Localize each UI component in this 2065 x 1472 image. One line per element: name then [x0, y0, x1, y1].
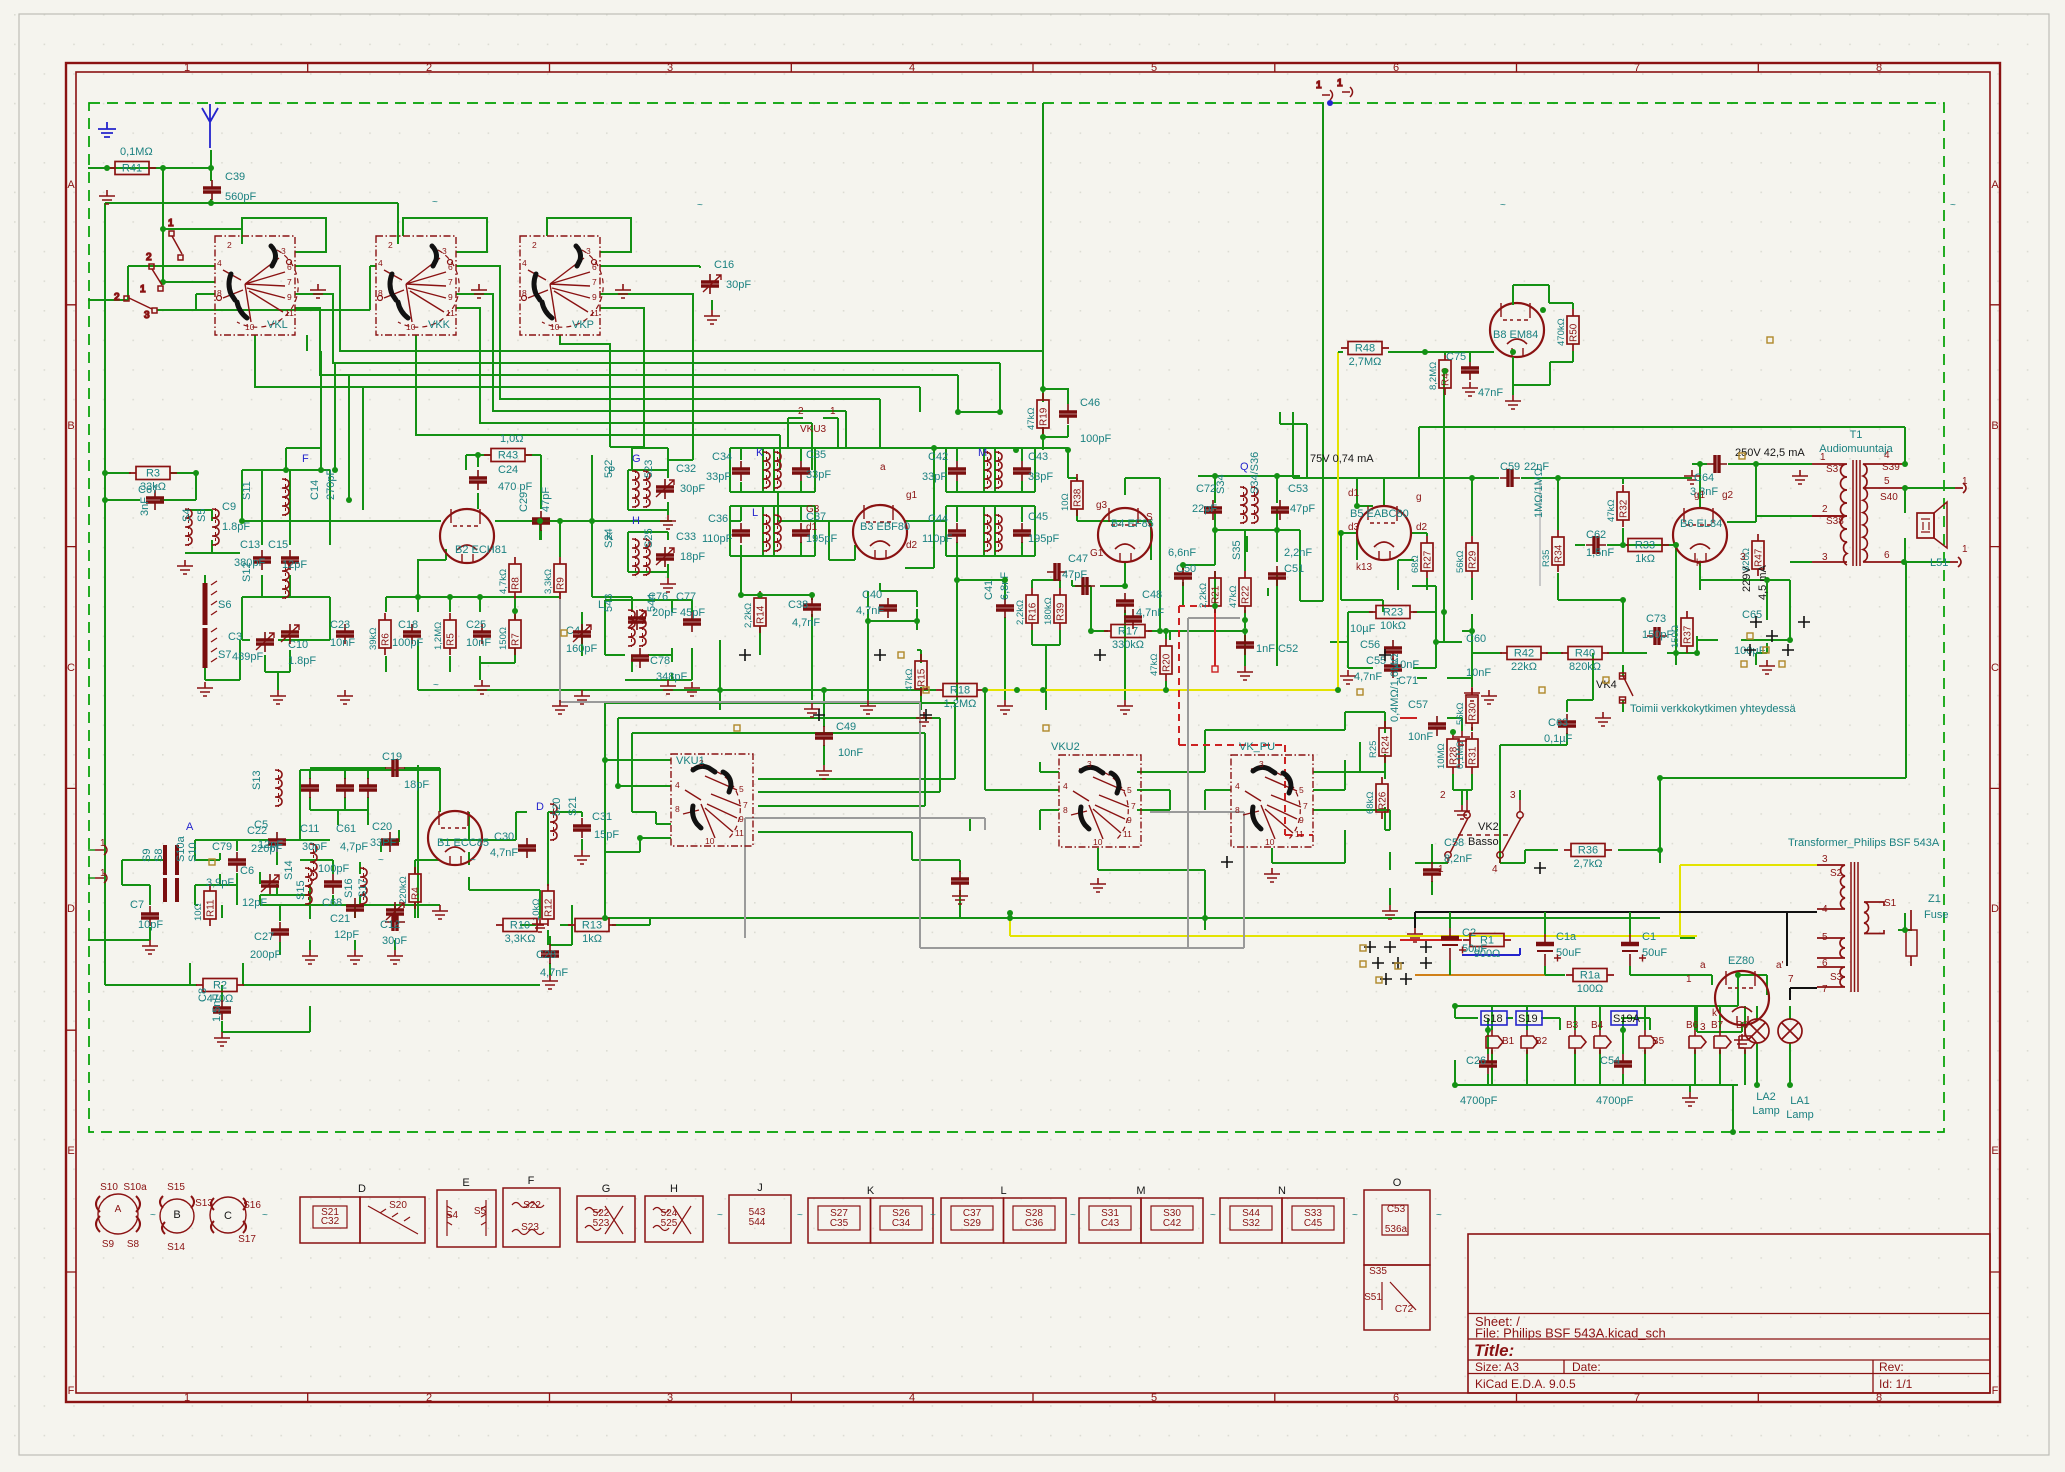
svg-text:47kΩ: 47kΩ	[1228, 586, 1239, 608]
svg-text:15pF: 15pF	[594, 829, 619, 841]
svg-text:Rev:: Rev:	[1879, 1360, 1904, 1374]
svg-text:S10a: S10a	[123, 1182, 147, 1193]
svg-text:M: M	[1136, 1185, 1145, 1197]
svg-text:330kΩ: 330kΩ	[1112, 639, 1144, 651]
svg-text:A: A	[67, 179, 75, 191]
svg-text:3: 3	[667, 1392, 673, 1404]
svg-text:B5 EABC80: B5 EABC80	[1350, 508, 1409, 520]
svg-text:S9: S9	[141, 849, 153, 862]
svg-text:R48: R48	[1355, 343, 1375, 355]
svg-text:4: 4	[1884, 450, 1890, 461]
svg-text:C42: C42	[1163, 1218, 1182, 1229]
svg-text:1: 1	[1820, 452, 1826, 463]
svg-text:47pF: 47pF	[540, 487, 552, 512]
svg-text:3,3KΩ: 3,3KΩ	[505, 933, 536, 945]
svg-text:C36: C36	[708, 513, 728, 525]
svg-text:G: G	[602, 1183, 611, 1195]
svg-text:R10: R10	[510, 920, 530, 932]
svg-text:2: 2	[426, 1392, 432, 1404]
svg-text:229V: 229V	[1741, 566, 1753, 592]
svg-text:10pF: 10pF	[138, 919, 163, 931]
svg-text:~: ~	[470, 855, 476, 866]
svg-text:S19: S19	[1518, 1013, 1538, 1025]
svg-text:C28: C28	[536, 949, 556, 961]
svg-text:R14: R14	[756, 605, 767, 624]
svg-text:2: 2	[798, 406, 804, 417]
svg-text:C56: C56	[1360, 639, 1380, 651]
svg-text:C32: C32	[321, 1216, 340, 1227]
svg-text:820kΩ: 820kΩ	[1569, 661, 1601, 673]
svg-text:C67: C67	[138, 484, 158, 496]
svg-text:47kΩ: 47kΩ	[1606, 500, 1617, 522]
svg-text:S14: S14	[283, 860, 295, 880]
svg-text:C19: C19	[382, 751, 402, 763]
svg-text:H: H	[632, 515, 640, 527]
svg-text:F: F	[1992, 1385, 1999, 1397]
svg-text:L51: L51	[1930, 557, 1948, 569]
svg-text:R29: R29	[1468, 550, 1479, 569]
svg-text:a': a'	[1776, 960, 1784, 971]
svg-text:47kΩ: 47kΩ	[1149, 654, 1160, 676]
svg-text:d2: d2	[1416, 522, 1428, 533]
svg-text:C40: C40	[862, 589, 882, 601]
svg-text:C50: C50	[1176, 563, 1196, 575]
svg-text:7: 7	[1822, 984, 1828, 995]
svg-text:R19: R19	[1039, 407, 1050, 426]
svg-text:Toimii verkkokytkimen yhteydes: Toimii verkkokytkimen yhteydessä	[1630, 703, 1797, 715]
svg-text:g2: g2	[1722, 490, 1734, 501]
svg-text:~: ~	[717, 1210, 723, 1221]
svg-text:4700pF: 4700pF	[1460, 1095, 1498, 1107]
svg-text:C46: C46	[1080, 397, 1100, 409]
svg-text:3: 3	[1740, 552, 1746, 563]
svg-text:B2: B2	[1535, 1036, 1548, 1047]
svg-text:220pF: 220pF	[251, 843, 282, 855]
svg-text:R35: R35	[1541, 550, 1552, 567]
svg-text:g1: g1	[906, 490, 918, 501]
svg-text:C61: C61	[336, 823, 356, 835]
svg-text:K: K	[756, 447, 764, 459]
svg-text:100pF: 100pF	[392, 637, 423, 649]
svg-text:R31: R31	[1468, 746, 1479, 765]
svg-text:20pF: 20pF	[652, 607, 677, 619]
svg-text:520: 520	[551, 798, 563, 816]
svg-text:~: ~	[1070, 1210, 1076, 1221]
svg-text:33pF: 33pF	[922, 471, 947, 483]
svg-text:C38: C38	[788, 599, 808, 611]
svg-text:270pF: 270pF	[325, 469, 337, 500]
svg-text:S15: S15	[295, 880, 307, 900]
svg-text:R8: R8	[511, 577, 522, 590]
svg-text:S: S	[1146, 512, 1153, 523]
svg-text:R21: R21	[1211, 585, 1222, 604]
svg-text:56kΩ: 56kΩ	[1455, 551, 1466, 573]
svg-text:2,7MΩ: 2,7MΩ	[1349, 356, 1382, 368]
svg-text:47pF: 47pF	[1290, 503, 1315, 515]
svg-text:220kΩ: 220kΩ	[398, 876, 409, 904]
svg-text:F: F	[302, 453, 309, 465]
svg-text:10kΩ: 10kΩ	[1380, 620, 1406, 632]
svg-text:R38: R38	[1073, 488, 1084, 507]
svg-text:1,2MΩ: 1,2MΩ	[944, 698, 977, 710]
svg-text:1.8pF: 1.8pF	[222, 521, 250, 533]
svg-text:C12: C12	[380, 919, 400, 931]
svg-text:180kΩ: 180kΩ	[1043, 597, 1054, 625]
svg-text:4: 4	[909, 62, 915, 74]
svg-text:g1: g1	[1694, 490, 1706, 501]
svg-text:~: ~	[262, 1210, 268, 1221]
svg-text:4,7nF: 4,7nF	[856, 605, 884, 617]
svg-text:45pF: 45pF	[680, 607, 705, 619]
svg-text:560pF: 560pF	[225, 191, 256, 203]
svg-text:VKL: VKL	[267, 319, 288, 331]
svg-text:33PF: 33PF	[370, 837, 397, 849]
svg-text:22pF: 22pF	[1192, 503, 1217, 515]
svg-text:2: 2	[146, 252, 152, 263]
svg-text:~: ~	[697, 200, 703, 211]
svg-text:C53: C53	[1387, 1204, 1406, 1215]
svg-text:C10: C10	[288, 639, 308, 651]
svg-text:R33: R33	[1635, 540, 1655, 552]
svg-text:50uF: 50uF	[1462, 943, 1487, 955]
svg-text:LA2: LA2	[1756, 1091, 1776, 1103]
svg-text:C49: C49	[836, 721, 856, 733]
svg-text:7: 7	[1634, 62, 1640, 74]
svg-text:10kΩ: 10kΩ	[531, 899, 542, 921]
svg-text:489pF: 489pF	[232, 651, 263, 663]
svg-text:7: 7	[1634, 1392, 1640, 1404]
svg-text:C32: C32	[676, 463, 696, 475]
svg-text:C48: C48	[1142, 589, 1162, 601]
svg-text:B5: B5	[1652, 1036, 1665, 1047]
svg-text:R40: R40	[1575, 648, 1595, 660]
svg-text:K: K	[606, 531, 614, 543]
svg-text:R5: R5	[446, 633, 457, 646]
svg-text:VKU1: VKU1	[676, 755, 705, 767]
svg-text:10µF: 10µF	[1350, 623, 1376, 635]
svg-text:C41: C41	[983, 580, 995, 600]
svg-text:C36: C36	[1025, 1218, 1044, 1229]
svg-text:33pF: 33pF	[1028, 471, 1053, 483]
svg-text:a: a	[880, 462, 886, 473]
svg-text:~: ~	[930, 1210, 936, 1221]
svg-text:1,0Ω: 1,0Ω	[500, 433, 524, 445]
svg-text:C16: C16	[714, 259, 734, 271]
svg-text:S12: S12	[241, 562, 253, 582]
svg-text:100Ω: 100Ω	[1577, 983, 1604, 995]
svg-text:470kΩ: 470kΩ	[1556, 318, 1567, 346]
svg-text:C78: C78	[650, 655, 670, 667]
svg-text:1.8pF: 1.8pF	[288, 655, 316, 667]
svg-text:S23: S23	[521, 1222, 539, 1233]
svg-text:R41: R41	[122, 163, 142, 175]
svg-text:R12: R12	[544, 898, 555, 917]
svg-text:30pF: 30pF	[302, 841, 327, 853]
svg-text:R18: R18	[950, 685, 970, 697]
svg-text:G3: G3	[806, 504, 820, 515]
svg-text:4: 4	[909, 1392, 915, 1404]
svg-text:B6 EL84: B6 EL84	[1680, 518, 1722, 530]
svg-text:R1a: R1a	[1580, 970, 1601, 982]
svg-text:L: L	[598, 599, 604, 611]
svg-text:C47: C47	[1068, 553, 1088, 565]
svg-text:C72: C72	[1196, 483, 1216, 495]
svg-text:30pF: 30pF	[680, 483, 705, 495]
svg-text:S35: S35	[1369, 1266, 1387, 1277]
svg-text:10MΩ: 10MΩ	[1436, 743, 1447, 769]
svg-text:C53: C53	[1288, 483, 1308, 495]
svg-text:S38: S38	[1826, 516, 1844, 527]
svg-text:S4: S4	[446, 1210, 459, 1221]
svg-text:75V 0,74 mA: 75V 0,74 mA	[1310, 453, 1374, 465]
svg-text:5: 5	[1151, 62, 1157, 74]
svg-text:470 pF: 470 pF	[498, 481, 533, 493]
svg-text:S10: S10	[100, 1182, 118, 1193]
svg-text:50uF: 50uF	[1642, 947, 1667, 959]
svg-text:12pF: 12pF	[242, 897, 267, 909]
svg-text:8: 8	[1876, 1392, 1882, 1404]
svg-text:47pF: 47pF	[1062, 569, 1087, 581]
svg-text:G1: G1	[1090, 548, 1104, 559]
svg-text:C62: C62	[1586, 529, 1606, 541]
svg-text:C13: C13	[240, 539, 260, 551]
svg-text:4,7nF: 4,7nF	[1136, 607, 1164, 619]
svg-text:S6: S6	[218, 599, 231, 611]
svg-text:d1: d1	[1348, 488, 1360, 499]
svg-text:6: 6	[1393, 62, 1399, 74]
svg-text:S13: S13	[251, 770, 263, 790]
svg-text:1MΩ/1MΩ: 1MΩ/1MΩ	[1533, 468, 1545, 518]
svg-text:S10a: S10a	[175, 835, 187, 862]
svg-text:S1: S1	[1884, 898, 1897, 909]
svg-text:a: a	[1700, 960, 1706, 971]
svg-text:3: 3	[144, 310, 150, 321]
svg-text:2: 2	[1440, 790, 1446, 801]
svg-text:110pF: 110pF	[702, 533, 733, 545]
svg-text:C73: C73	[1646, 613, 1666, 625]
svg-text:B2 ECH81: B2 ECH81	[455, 544, 507, 556]
svg-text:R37: R37	[1683, 625, 1694, 644]
svg-text:R32: R32	[1619, 499, 1630, 518]
svg-text:R11: R11	[206, 899, 217, 917]
svg-text:R6: R6	[381, 633, 392, 646]
svg-text:100pF: 100pF	[318, 863, 349, 875]
svg-text:47kΩ: 47kΩ	[1026, 408, 1037, 430]
svg-text:~: ~	[797, 1210, 803, 1221]
svg-text:B8: B8	[1736, 1020, 1749, 1031]
svg-text:B6: B6	[1686, 1020, 1699, 1031]
svg-text:C11: C11	[300, 823, 319, 835]
svg-text:3: 3	[1510, 790, 1516, 801]
svg-text:S16: S16	[243, 1200, 261, 1211]
svg-text:2: 2	[114, 292, 120, 303]
svg-text:~: ~	[1352, 1210, 1358, 1221]
svg-text:8,2MΩ: 8,2MΩ	[1428, 362, 1439, 390]
svg-text:R16: R16	[1028, 602, 1039, 621]
svg-text:d1: d1	[806, 522, 818, 533]
svg-text:544: 544	[749, 1217, 766, 1228]
svg-text:150Ω: 150Ω	[498, 627, 509, 650]
svg-text:F: F	[528, 1175, 535, 1187]
svg-text:R4: R4	[411, 887, 422, 900]
svg-text:C18: C18	[398, 619, 418, 631]
svg-text:S34/S36: S34/S36	[1249, 452, 1261, 494]
svg-text:R42: R42	[1514, 648, 1534, 660]
svg-text:S29: S29	[963, 1218, 981, 1229]
svg-text:k13: k13	[1356, 562, 1373, 573]
svg-text:2: 2	[426, 62, 432, 74]
svg-text:Q: Q	[1240, 461, 1249, 473]
svg-text:J: J	[757, 1182, 763, 1194]
svg-text:R3: R3	[146, 468, 160, 480]
svg-text:g: g	[1416, 492, 1422, 503]
svg-text:R24: R24	[1381, 735, 1392, 754]
svg-text:Transformer_Philips BSF 543A: Transformer_Philips BSF 543A	[1788, 837, 1940, 849]
svg-text:33pF: 33pF	[806, 469, 831, 481]
svg-text:R17: R17	[1118, 626, 1138, 638]
svg-text:Fuse: Fuse	[1924, 909, 1948, 921]
svg-text:R7: R7	[511, 633, 522, 646]
svg-text:S19A: S19A	[1613, 1013, 1641, 1025]
svg-text:C20: C20	[372, 821, 392, 833]
svg-text:1kΩ: 1kΩ	[582, 933, 602, 945]
svg-text:S32: S32	[1242, 1218, 1260, 1229]
svg-text:N: N	[1278, 1185, 1286, 1197]
svg-text:C45: C45	[1304, 1218, 1323, 1229]
svg-text:C27: C27	[254, 931, 274, 943]
svg-text:150pF: 150pF	[1642, 629, 1673, 641]
svg-text:39kΩ: 39kΩ	[368, 628, 379, 650]
svg-text:S51: S51	[1364, 1292, 1382, 1303]
svg-text:1,2MΩ: 1,2MΩ	[433, 622, 444, 650]
svg-text:2,2kΩ: 2,2kΩ	[743, 603, 754, 628]
svg-text:R36: R36	[1578, 845, 1598, 857]
svg-text:1nF C52: 1nF C52	[1256, 643, 1298, 655]
svg-text:File: Philips BSF 543A.kicad_s: File: Philips BSF 543A.kicad_sch	[1475, 1326, 1666, 1341]
svg-text:S7: S7	[218, 649, 231, 661]
svg-text:12pF: 12pF	[282, 559, 307, 571]
svg-text:R15: R15	[917, 668, 928, 687]
svg-text:~: ~	[150, 1210, 156, 1221]
svg-text:K: K	[867, 1185, 875, 1197]
svg-text:H: H	[670, 1183, 678, 1195]
svg-text:~: ~	[378, 855, 384, 866]
svg-text:C59: C59	[1500, 461, 1520, 473]
svg-text:3: 3	[1822, 552, 1828, 563]
svg-text:B: B	[67, 420, 74, 432]
svg-text:C57: C57	[1408, 699, 1428, 711]
svg-text:12pF: 12pF	[334, 929, 359, 941]
svg-text:10nF: 10nF	[1408, 731, 1433, 743]
svg-text:4700pF: 4700pF	[1596, 1095, 1634, 1107]
svg-text:536a: 536a	[1385, 1224, 1408, 1235]
svg-text:C42: C42	[928, 451, 948, 463]
svg-text:10nF: 10nF	[838, 747, 863, 759]
svg-text:B1: B1	[1502, 1036, 1515, 1047]
svg-text:Z1: Z1	[1928, 893, 1941, 905]
svg-text:S39: S39	[1882, 462, 1900, 473]
svg-text:S40: S40	[1880, 492, 1898, 503]
svg-text:1,5nF: 1,5nF	[1586, 547, 1614, 559]
svg-text:Id: 1/1: Id: 1/1	[1879, 1377, 1913, 1391]
svg-text:1: 1	[140, 284, 146, 295]
svg-text:10nF: 10nF	[330, 637, 355, 649]
svg-text:C: C	[67, 662, 75, 674]
svg-text:C29: C29	[518, 492, 530, 512]
svg-text:C35: C35	[830, 1218, 849, 1229]
svg-text:A: A	[115, 1204, 122, 1215]
svg-text:B4: B4	[1591, 1020, 1604, 1031]
svg-text:L: L	[1000, 1185, 1006, 1197]
svg-text:B8 EM84: B8 EM84	[1493, 329, 1538, 341]
svg-text:1kΩ: 1kΩ	[1635, 553, 1655, 565]
svg-text:543: 543	[603, 594, 615, 612]
svg-text:C75: C75	[1446, 351, 1466, 363]
svg-text:~: ~	[1436, 1210, 1442, 1221]
svg-text:4,7nF: 4,7nF	[540, 967, 568, 979]
svg-text:523: 523	[593, 1218, 610, 1229]
svg-text:0,1MΩ: 0,1MΩ	[120, 146, 153, 158]
svg-text:C60: C60	[1466, 633, 1486, 645]
svg-text:D: D	[1991, 903, 1999, 915]
svg-text:B3: B3	[1566, 1020, 1579, 1031]
svg-text:S21: S21	[567, 796, 579, 816]
svg-text:R23: R23	[1383, 607, 1403, 619]
svg-text:R25: R25	[1368, 741, 1379, 758]
svg-text:VKU2: VKU2	[1051, 741, 1080, 753]
svg-text:VKU3: VKU3	[800, 424, 827, 435]
svg-text:6: 6	[1884, 550, 1890, 561]
svg-text:1,5nF: 1,5nF	[211, 994, 223, 1022]
svg-text:E: E	[462, 1177, 469, 1189]
svg-text:~: ~	[433, 680, 439, 691]
svg-text:C9: C9	[222, 501, 236, 513]
svg-text:10Ω: 10Ω	[193, 903, 204, 921]
svg-text:C71: C71	[1398, 675, 1418, 687]
svg-text:VK2: VK2	[1478, 821, 1499, 833]
svg-text:C72: C72	[1395, 1304, 1414, 1315]
svg-text:R22: R22	[1241, 585, 1252, 604]
svg-text:Date:: Date:	[1572, 1360, 1601, 1374]
svg-text:S10: S10	[187, 842, 199, 862]
svg-text:T1: T1	[1850, 429, 1863, 441]
svg-text:6,6nF: 6,6nF	[1168, 547, 1196, 559]
svg-text:S14: S14	[167, 1242, 185, 1253]
svg-text:O: O	[1393, 1177, 1402, 1189]
svg-text:C64: C64	[1694, 472, 1714, 484]
svg-text:C43: C43	[1028, 451, 1048, 463]
svg-text:C15: C15	[268, 539, 288, 551]
svg-text:5: 5	[1822, 932, 1828, 943]
svg-text:VKK: VKK	[428, 319, 451, 331]
svg-text:S5: S5	[196, 509, 208, 522]
svg-text:S20: S20	[389, 1200, 407, 1211]
svg-text:4,7nF: 4,7nF	[490, 847, 518, 859]
svg-text:R30: R30	[1468, 702, 1479, 721]
svg-text:C58: C58	[1444, 837, 1464, 849]
svg-text:5: 5	[1884, 476, 1890, 487]
svg-text:C21: C21	[330, 913, 350, 925]
svg-text:C8: C8	[197, 988, 209, 1002]
svg-text:110pF: 110pF	[922, 533, 953, 545]
svg-text:195pF: 195pF	[1028, 533, 1059, 545]
svg-text:C55: C55	[1366, 655, 1386, 667]
svg-text:R43: R43	[498, 450, 518, 462]
svg-text:8,2nF: 8,2nF	[1444, 853, 1472, 865]
svg-text:1: 1	[830, 406, 836, 417]
svg-text:10nF: 10nF	[1466, 667, 1491, 679]
svg-text:100pF: 100pF	[1080, 433, 1111, 445]
